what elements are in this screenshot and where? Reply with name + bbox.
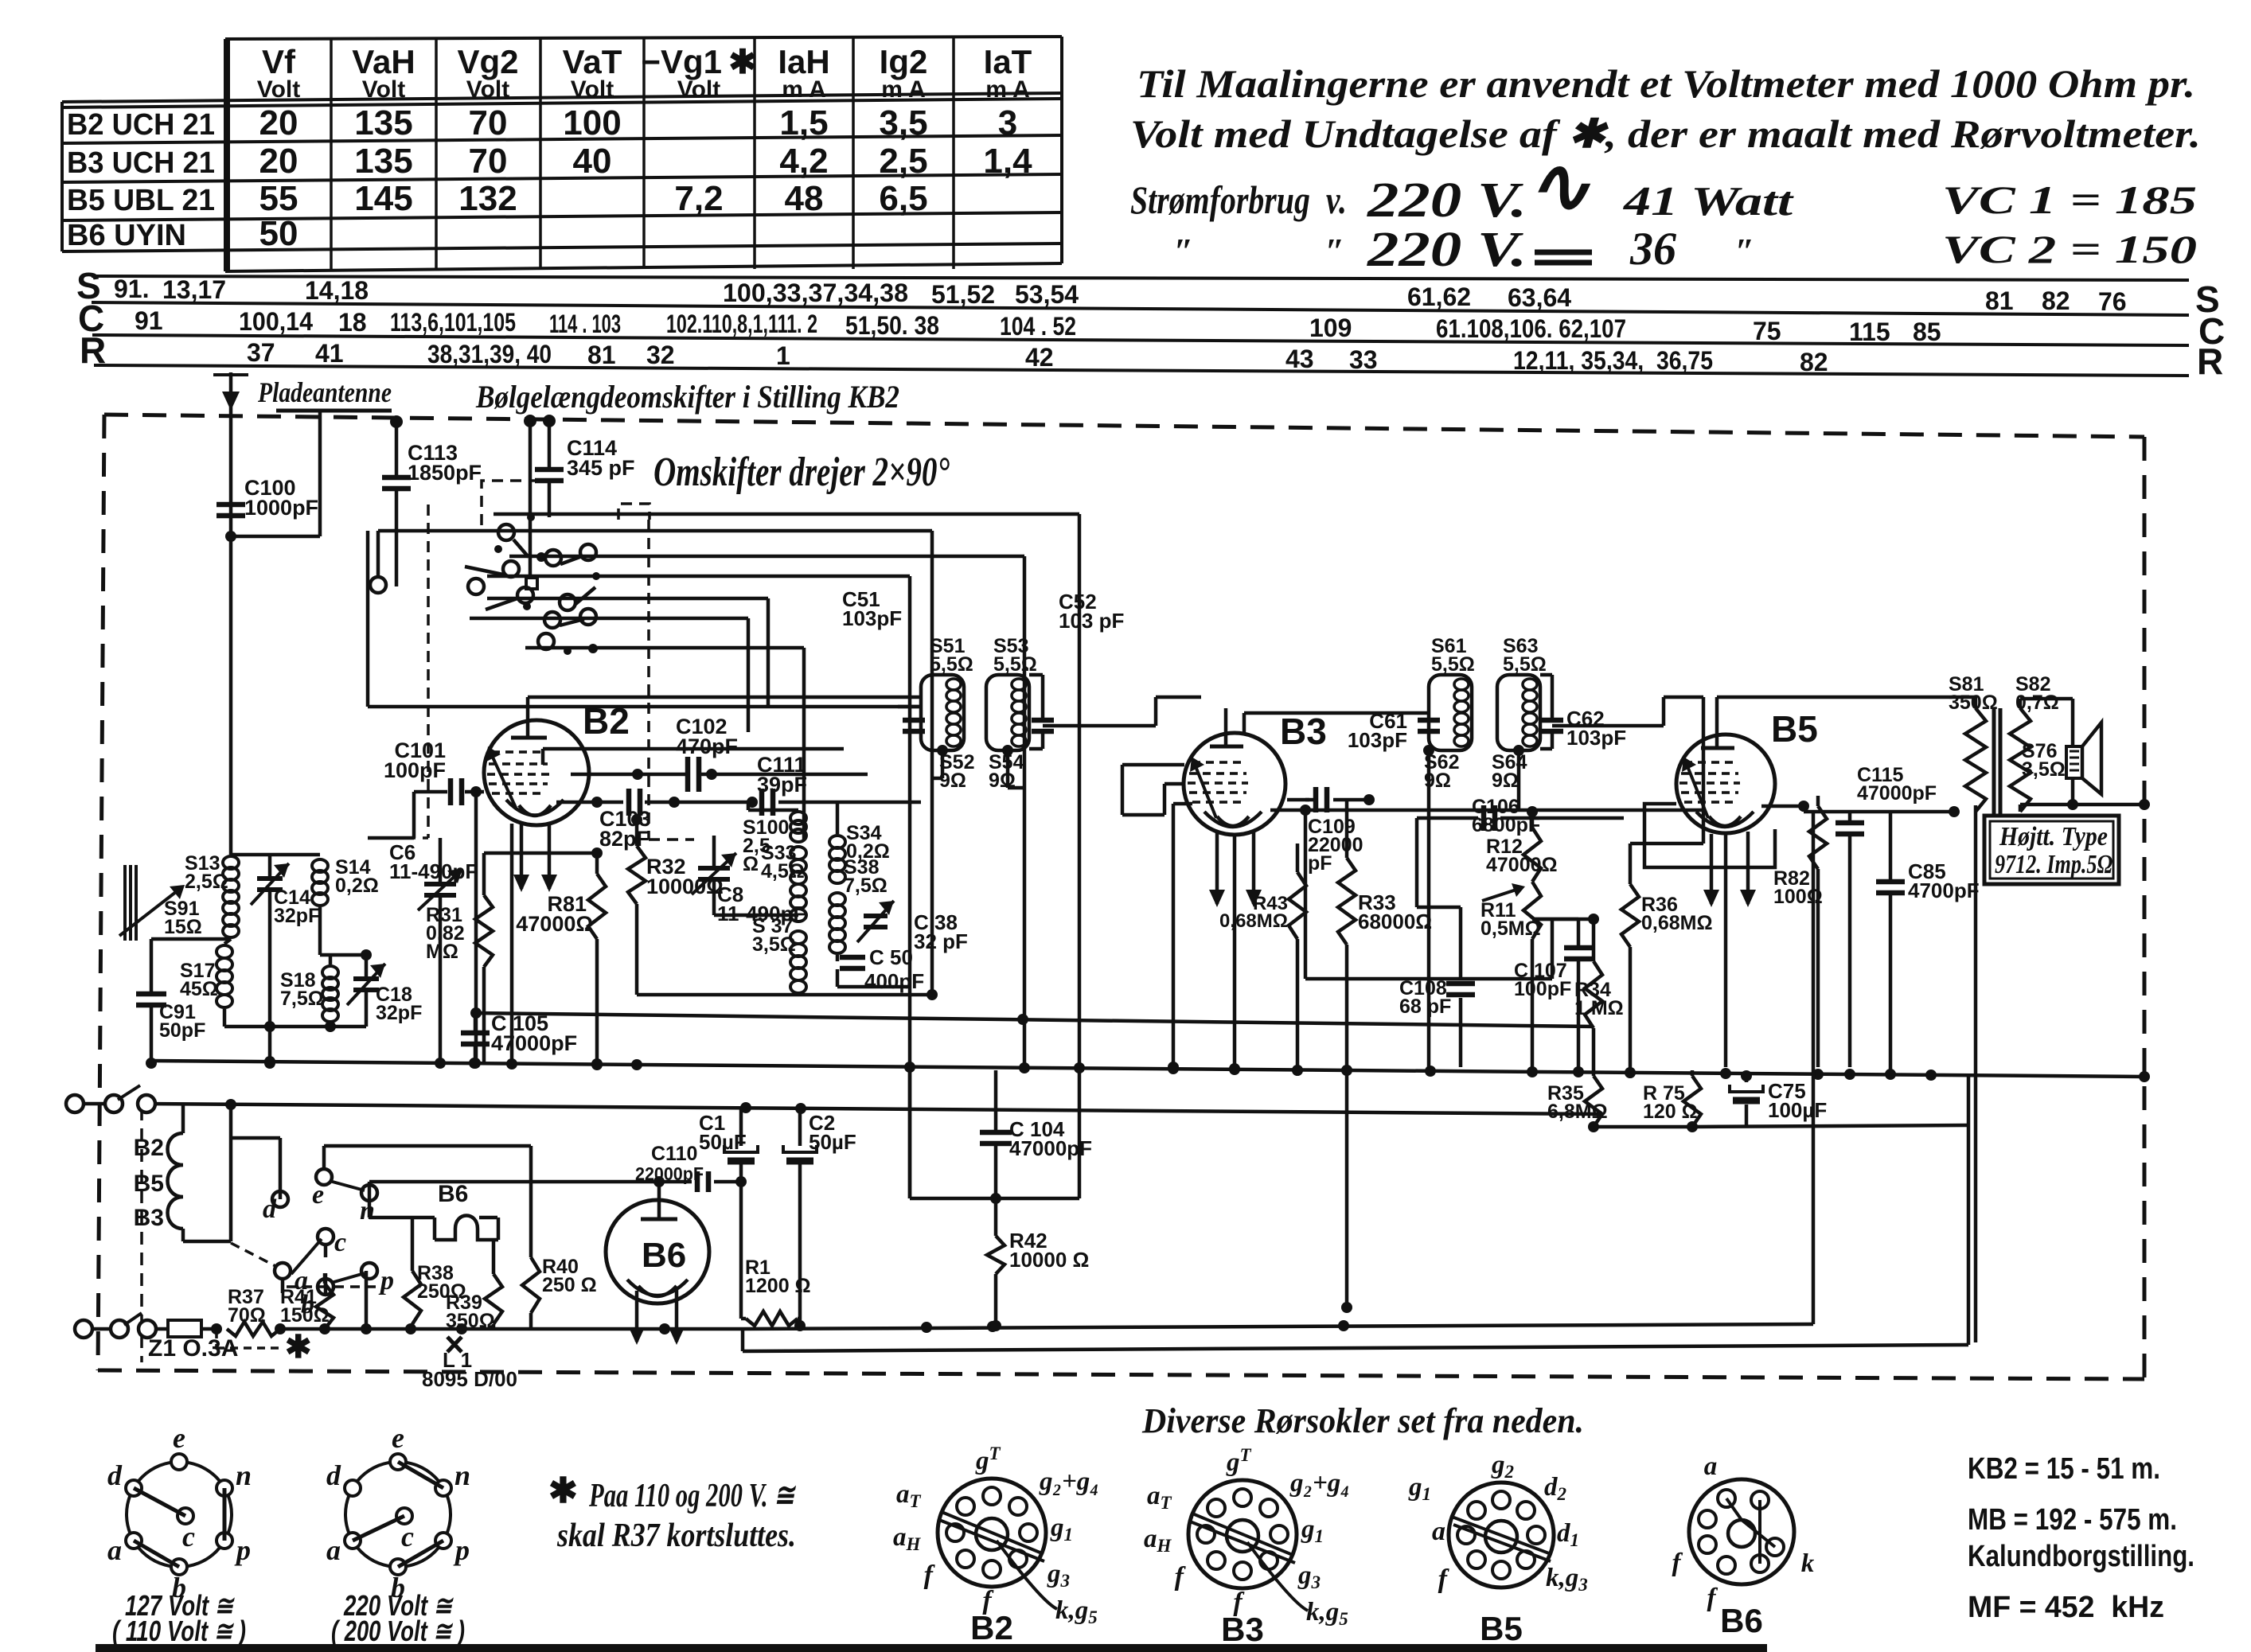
svg-text:R: R [2197, 341, 2223, 382]
svg-text:102.110,8,1,111. 2: 102.110,8,1,111. 2 [666, 310, 817, 338]
svg-text:76: 76 [2098, 287, 2127, 316]
capacitor C114 [548, 422, 552, 469]
svg-text:d: d [107, 1459, 123, 1491]
svg-text:Z1 O.3A: Z1 O.3A [148, 1335, 238, 1362]
resistor R75 [1683, 1076, 1701, 1127]
svg-text:103 pF: 103 pF [1059, 609, 1124, 633]
svg-text:B3: B3 [134, 1205, 164, 1231]
B2 triode wire with C103 C111 [556, 801, 623, 805]
speaker [2082, 723, 2101, 794]
svg-text:B2 UCH 21: B2 UCH 21 [67, 108, 215, 142]
svg-text:32pF: 32pF [376, 1002, 422, 1024]
capacitor C107 [1577, 919, 1581, 945]
capacitor C50 [836, 955, 840, 961]
svg-text:103pF: 103pF [842, 606, 902, 630]
svg-text:42: 42 [1025, 343, 1054, 372]
svg-text:∿: ∿ [1527, 144, 1591, 228]
capacitor C61 [1418, 718, 1440, 723]
scanner black bar [96, 1644, 1767, 1652]
wire to B6 heater [744, 1324, 1813, 1329]
bottom tie wire [224, 1025, 366, 1029]
svg-text:d: d [326, 1459, 341, 1491]
svg-text:Bølgelængdeomskifter i Stillin: Bølgelængdeomskifter i Stilling KB2 [475, 379, 899, 415]
selector box wires [369, 1216, 412, 1220]
svg-text:32: 32 [646, 341, 675, 369]
svg-text:39pF: 39pF [757, 773, 807, 797]
svg-text:50µF: 50µF [699, 1130, 747, 1154]
svg-text:70Ω: 70Ω [228, 1304, 266, 1327]
svg-text:50pF: 50pF [159, 1019, 205, 1042]
svg-text:−Vg1 ✱: −Vg1 ✱ [641, 43, 756, 80]
speaker box label [1984, 816, 2119, 884]
svg-text:135: 135 [354, 142, 412, 181]
handwritten measurement notes [1130, 61, 2201, 277]
svg-text:6800pF: 6800pF [1472, 814, 1540, 836]
B2 g2 wire [541, 749, 545, 765]
B2 g4/anode-T wire with C102 [571, 773, 686, 777]
svg-text:100,14: 100,14 [239, 307, 313, 336]
svg-text:41: 41 [315, 339, 344, 368]
capacitor C113 [395, 422, 399, 477]
svg-text:61,62: 61,62 [1407, 282, 1471, 311]
svg-text:VaT: VaT [563, 43, 622, 80]
svg-text:( 110 Volt ≅ ): ( 110 Volt ≅ ) [112, 1615, 246, 1647]
svg-text:68000Ω: 68000Ω [1358, 910, 1432, 933]
svg-text:3: 3 [998, 103, 1017, 142]
svg-text:1: 1 [776, 341, 790, 370]
B5 cathode leads [1710, 834, 1714, 904]
svg-text:d: d [263, 1194, 277, 1224]
capacitor C108 [1459, 907, 1463, 980]
svg-text:VC 2 = 150: VC 2 = 150 [1942, 227, 2197, 271]
svg-text:Vf: Vf [262, 43, 296, 80]
svg-text:220 V.: 220 V. [1367, 173, 1527, 228]
svg-text:C 50: C 50 [869, 945, 913, 969]
svg-text:11-490pF: 11-490pF [389, 859, 478, 883]
svg-text:2,5: 2,5 [879, 142, 927, 181]
svg-text:✱: ✱ [285, 1330, 312, 1365]
svg-text:Volt: Volt [362, 76, 405, 103]
svg-text:✱: ✱ [548, 1471, 578, 1510]
svg-text:104 . 52: 104 . 52 [1000, 312, 1076, 341]
svg-text:B2: B2 [134, 1135, 164, 1161]
svg-text:40: 40 [573, 142, 612, 181]
svg-text:7,5Ω: 7,5Ω [280, 988, 324, 1010]
svg-text:c: c [401, 1521, 414, 1553]
svg-text:100µF: 100µF [1768, 1098, 1827, 1122]
coil S14 [312, 859, 328, 872]
svg-text:a: a [326, 1534, 341, 1566]
output stage wires [1802, 806, 1806, 812]
resistor R35 [1585, 1076, 1602, 1127]
voice coil S76 [2066, 746, 2082, 778]
tube B3 [1184, 733, 1285, 835]
svg-text:1,4: 1,4 [983, 142, 1032, 181]
svg-text:e: e [392, 1422, 404, 1454]
wire from b contact [324, 1273, 328, 1295]
svg-text:KB2 = 15 - 51 m.: KB2 = 15 - 51 m. [1968, 1452, 2160, 1486]
svg-text:Volt med Undtagelse af ✱, der: Volt med Undtagelse af ✱, der er maalt m… [1130, 111, 2201, 156]
svg-text:IaH: IaH [778, 43, 829, 80]
tube B2 [484, 720, 589, 825]
svg-text:VaH: VaH [352, 43, 415, 80]
trimmer C33 small [864, 914, 888, 918]
svg-text:103pF: 103pF [1566, 726, 1626, 750]
svg-text:MB = 192 - 575 m.: MB = 192 - 575 m. [1968, 1503, 2177, 1537]
svg-text:″: ″ [1174, 232, 1193, 271]
svg-text:100pF: 100pF [384, 758, 446, 782]
B3 grid side lead [1165, 782, 1184, 786]
svg-text:82: 82 [2042, 286, 2070, 315]
svg-text:51,50. 38: 51,50. 38 [845, 311, 939, 340]
svg-text:100: 100 [563, 103, 621, 142]
svg-text:1850pF: 1850pF [408, 461, 482, 485]
svg-text:a: a [107, 1534, 122, 1566]
svg-text:100Ω: 100Ω [1773, 886, 1823, 908]
inner dashed mains separator [140, 1108, 143, 1362]
svg-text:48: 48 [785, 179, 824, 218]
capacitor C75 [1745, 1076, 1749, 1082]
svg-text:47000Ω: 47000Ω [1486, 854, 1558, 876]
svg-text:1 MΩ: 1 MΩ [1574, 997, 1624, 1019]
svg-text:5,5Ω: 5,5Ω [993, 653, 1037, 676]
svg-text:7,5Ω: 7,5Ω [844, 875, 888, 897]
supply verticals [908, 1067, 912, 1198]
svg-text:47000pF: 47000pF [1857, 782, 1937, 805]
svg-text:6,8MΩ: 6,8MΩ [1547, 1101, 1608, 1123]
svg-text:4,2: 4,2 [779, 142, 828, 181]
svg-text:R: R [80, 329, 106, 371]
resistor R38 [404, 1271, 421, 1324]
svg-text:B2: B2 [970, 1609, 1013, 1646]
tube socket B6 [1689, 1479, 1794, 1584]
svg-text:70: 70 [469, 142, 508, 181]
svg-text:B5: B5 [1771, 708, 1818, 750]
svg-text:B5 UBL 21: B5 UBL 21 [67, 184, 215, 217]
svg-text:4700pF: 4700pF [1908, 879, 1980, 902]
svg-text:75: 75 [1753, 317, 1781, 345]
svg-text:( 200 Volt ≅ ): ( 200 Volt ≅ ) [331, 1615, 465, 1647]
switch levers [513, 540, 529, 557]
svg-text:Kalundborgstilling.: Kalundborgstilling. [1968, 1540, 2194, 1573]
tube B6 [606, 1200, 709, 1303]
antenna lead [229, 372, 233, 855]
switch bus wires [378, 529, 932, 533]
svg-text:B5: B5 [134, 1171, 164, 1197]
svg-text:n: n [454, 1459, 470, 1491]
capacitor C100 [217, 502, 245, 508]
svg-text:m A: m A [985, 76, 1030, 103]
svg-text:5,5Ω: 5,5Ω [930, 653, 973, 676]
selector wiring [279, 1138, 283, 1199]
screen bus [474, 1013, 1594, 1027]
svg-text:4,5Ω: 4,5Ω [761, 860, 805, 882]
trimmer C18 [365, 955, 369, 977]
svg-text:0,7Ω: 0,7Ω [2015, 692, 2059, 714]
svg-text:20: 20 [259, 103, 298, 142]
tube socket B3 [1188, 1480, 1297, 1588]
svg-text:Paa 110 og 200 V. ≅: Paa 110 og 200 V. ≅ [588, 1478, 796, 1514]
capacitor C109 [1305, 798, 1309, 802]
svg-text:47000pF: 47000pF [1009, 1136, 1092, 1160]
coil S33 [790, 847, 806, 859]
resistor R12 [1523, 828, 1541, 882]
heater bus [146, 1104, 1602, 1114]
svg-text:32pF: 32pF [274, 905, 320, 927]
capacitor C91 [151, 937, 231, 941]
svg-text:22000pF: 22000pF [635, 1163, 704, 1184]
svg-text:Vg2: Vg2 [457, 43, 518, 80]
B2 cathode leads [520, 821, 524, 889]
svg-text:51,52: 51,52 [931, 280, 995, 309]
resistor R36 [1629, 844, 1633, 884]
coil S17 [224, 939, 231, 944]
svg-text:10000 Ω: 10000 Ω [1009, 1248, 1089, 1272]
wire g to C109 [1287, 798, 1316, 802]
main ground bus [151, 1061, 2144, 1077]
svg-text:C110: C110 [651, 1143, 697, 1165]
svg-text:Omskifter drejer 2×90°: Omskifter drejer 2×90° [653, 450, 950, 495]
coupling capacitor C106 [1417, 816, 1478, 820]
svg-text:m A: m A [782, 76, 826, 103]
B3 output coupling wires [1305, 808, 1703, 812]
vertical feeders [930, 531, 934, 995]
svg-text:3,5Ω: 3,5Ω [752, 933, 796, 956]
capacitor C51 [903, 718, 925, 723]
capacitor C85 [1889, 875, 1893, 883]
dashed R37 shunt with asterisk [215, 1331, 218, 1348]
svg-text:B3: B3 [1280, 711, 1327, 752]
svg-text:0,2Ω: 0,2Ω [335, 875, 379, 897]
svg-text:2,5Ω: 2,5Ω [185, 871, 228, 893]
svg-text:skal R37 kortsluttes.: skal R37 kortsluttes. [556, 1518, 796, 1554]
svg-text:MΩ: MΩ [426, 941, 458, 963]
resistor R42 [994, 1198, 998, 1236]
svg-text:e: e [312, 1180, 324, 1210]
svg-text:Volt: Volt [677, 76, 720, 103]
svg-text:1200 Ω: 1200 Ω [745, 1275, 811, 1297]
core [1992, 708, 1996, 814]
capacitor C2 [798, 1108, 802, 1146]
svg-text:150Ω: 150Ω [280, 1304, 330, 1327]
capacitor C105 [474, 1013, 478, 1034]
coil S100 [790, 812, 806, 824]
svg-text:41 Watt: 41 Watt [1623, 179, 1794, 224]
resistor R39 [485, 1274, 502, 1324]
svg-text:Til Maalingerne er anvendt et: Til Maalingerne er anvendt et Voltmeter … [1137, 61, 2195, 106]
svg-text:Højtt. Type: Højtt. Type [1999, 822, 2108, 851]
core S91 [123, 865, 127, 941]
svg-text:115: 115 [1849, 318, 1890, 346]
capacitor C62 [1541, 718, 1563, 723]
IF transformer S51/S52 [842, 587, 974, 792]
selector levers [330, 1181, 365, 1190]
voltage selector 127V [127, 1462, 232, 1567]
svg-text:100,33,37,34,38: 100,33,37,34,38 [723, 279, 908, 307]
capacitor C110 [368, 1182, 372, 1202]
wire from B3 anode to IF2 [1244, 711, 1429, 715]
resistor R37 [227, 1322, 280, 1336]
heater winding B2 B5 B3 [181, 1104, 185, 1133]
svg-text:32 pF: 32 pF [914, 929, 968, 953]
resistor R81 [588, 874, 606, 939]
secondary S82 [2010, 708, 2031, 812]
svg-text:c: c [182, 1521, 195, 1553]
variable capacitor C6 [424, 882, 456, 886]
coil S38 [829, 893, 845, 906]
svg-text:B5: B5 [1480, 1610, 1523, 1647]
svg-text:82pF: 82pF [599, 827, 650, 851]
svg-text:c: c [334, 1228, 346, 1257]
mains plug top [66, 1095, 84, 1112]
svg-text:B6: B6 [438, 1181, 468, 1207]
svg-text:p: p [234, 1534, 251, 1566]
wire to B3 grid [1156, 695, 1201, 699]
svg-text:37: 37 [247, 338, 275, 367]
svg-text:0,5MΩ: 0,5MΩ [1481, 918, 1541, 940]
svg-text:70: 70 [469, 103, 508, 142]
svg-text:50µF: 50µF [809, 1130, 856, 1154]
svg-text:38,31,39, 40: 38,31,39, 40 [427, 340, 552, 368]
svg-text:91: 91 [135, 306, 163, 335]
svg-text:50: 50 [259, 214, 298, 253]
S C R reference strip [76, 265, 2225, 382]
svg-text:109: 109 [1309, 314, 1352, 342]
wire to C115 [1761, 805, 1804, 808]
svg-text:B6: B6 [1720, 1602, 1763, 1639]
svg-text:68 pF: 68 pF [1399, 995, 1451, 1018]
svg-text:n: n [236, 1459, 252, 1491]
svg-text:220 V.: 220 V. [1367, 223, 1527, 277]
dashed chassis border [98, 415, 2144, 1379]
svg-text:350Ω: 350Ω [1949, 692, 1998, 714]
tube socket B5 [1449, 1483, 1554, 1588]
IF transformer S53/S54 [986, 590, 1201, 792]
svg-text:15Ω: 15Ω [164, 916, 202, 938]
svg-text:5,5Ω: 5,5Ω [1503, 653, 1547, 676]
svg-text:145: 145 [354, 179, 412, 218]
capacitor C104 [994, 1070, 998, 1130]
svg-text:Volt: Volt [257, 76, 300, 103]
capacitor C1 [739, 1108, 743, 1146]
dashed link to a-contact [231, 1243, 277, 1267]
svg-text:0,68MΩ: 0,68MΩ [1641, 912, 1713, 934]
resistor R41 [316, 1284, 334, 1329]
resistor R34 [1592, 919, 1596, 961]
svg-text:55: 55 [259, 179, 298, 218]
B5 anode to top [1715, 697, 1719, 708]
bottom tie [1594, 1125, 1692, 1129]
svg-text:350Ω: 350Ω [446, 1310, 495, 1332]
svg-text:Ω: Ω [743, 853, 759, 875]
svg-text:Volt: Volt [571, 76, 614, 103]
svg-text:Volt: Volt [466, 76, 509, 103]
svg-text:113,6,101,105: 113,6,101,105 [390, 308, 516, 337]
capacitor C115 [1848, 812, 1852, 821]
wire transformer to border [2117, 803, 2144, 807]
svg-text:B3 UCH 21: B3 UCH 21 [67, 146, 215, 180]
resistor R1 [746, 1311, 798, 1326]
voltage selector 220V [345, 1462, 451, 1567]
svg-text:9712. Imp.5Ω: 9712. Imp.5Ω [1995, 850, 2113, 879]
resistor R33 [1345, 800, 1349, 858]
B3 cathode leads [1215, 832, 1219, 904]
svg-text:135: 135 [354, 103, 412, 142]
svg-text:18: 18 [338, 308, 367, 337]
main bottom wire [280, 1327, 744, 1331]
grid return line [474, 792, 478, 1063]
svg-text:″: ″ [1735, 232, 1754, 271]
wave change switch contacts [498, 524, 514, 540]
svg-text:400pF: 400pF [864, 969, 924, 993]
tube socket B2 [938, 1479, 1046, 1587]
svg-text:470pF: 470pF [676, 734, 738, 758]
IF transformer S61/S62 [1348, 635, 1475, 1067]
resistor R32 [628, 846, 646, 904]
svg-text:250 Ω: 250 Ω [542, 1274, 597, 1296]
svg-text:82: 82 [1800, 348, 1828, 376]
svg-text:20: 20 [259, 142, 298, 181]
svg-text:36: 36 [1629, 223, 1676, 275]
svg-text:120 Ω: 120 Ω [1643, 1101, 1698, 1123]
resistor R31 [475, 895, 493, 967]
dashed switch outline [482, 481, 536, 525]
svg-text:p: p [453, 1534, 470, 1566]
svg-text:5,5Ω: 5,5Ω [1431, 653, 1475, 676]
svg-text:pF: pF [1308, 852, 1332, 875]
B6 ballast lamp [435, 1216, 498, 1241]
coil S34 [829, 836, 845, 848]
svg-text:47000pF: 47000pF [491, 1031, 577, 1055]
svg-text:g₂+g₄: g₂+g₄ [1289, 1469, 1350, 1498]
svg-text:1,5: 1,5 [779, 103, 828, 142]
tube data table [62, 37, 1062, 271]
column C14 [268, 855, 272, 877]
coil S13 [223, 856, 239, 869]
svg-text:81: 81 [1985, 286, 2014, 315]
svg-text:a: a [1432, 1517, 1445, 1546]
svg-text:7,2: 7,2 [674, 179, 723, 218]
svg-text:3,5: 3,5 [879, 103, 927, 142]
second bottom wire [743, 1345, 1968, 1351]
svg-text:12,11, 35,34, 36,75: 12,11, 35,34, 36,75 [1513, 346, 1713, 375]
svg-text:61.108,106. 62,107: 61.108,106. 62,107 [1436, 314, 1626, 343]
svg-text:45Ω: 45Ω [180, 978, 218, 1000]
svg-text:8095 D/00: 8095 D/00 [422, 1367, 517, 1391]
capacitor C52 [1032, 718, 1054, 723]
svg-text:47000Ω: 47000Ω [516, 912, 593, 936]
R33 box wire [1305, 977, 1552, 981]
svg-text:9Ω: 9Ω [1492, 770, 1519, 792]
svg-text:345 pF: 345 pF [567, 456, 635, 480]
resistor R43 [1296, 844, 1300, 872]
svg-text:13,17: 13,17 [162, 275, 226, 304]
svg-text:e: e [173, 1422, 185, 1454]
svg-text:IaT: IaT [984, 43, 1032, 80]
svg-text:p: p [378, 1266, 394, 1295]
svg-text:Diverse Rørsokler set fra nede: Diverse Rørsokler set fra neden. [1141, 1401, 1584, 1440]
antenna plate [276, 409, 392, 413]
svg-text:a: a [1704, 1452, 1718, 1481]
svg-text:100pF: 100pF [1514, 978, 1571, 1000]
B6 cathode arrows [635, 1291, 639, 1342]
svg-text:B3: B3 [1221, 1611, 1264, 1648]
svg-text:m A: m A [881, 76, 926, 103]
svg-text:n: n [360, 1196, 375, 1225]
svg-text:k: k [1801, 1549, 1815, 1578]
cathode tie wire [484, 851, 597, 855]
svg-text:B6 UYIN: B6 UYIN [67, 219, 186, 252]
